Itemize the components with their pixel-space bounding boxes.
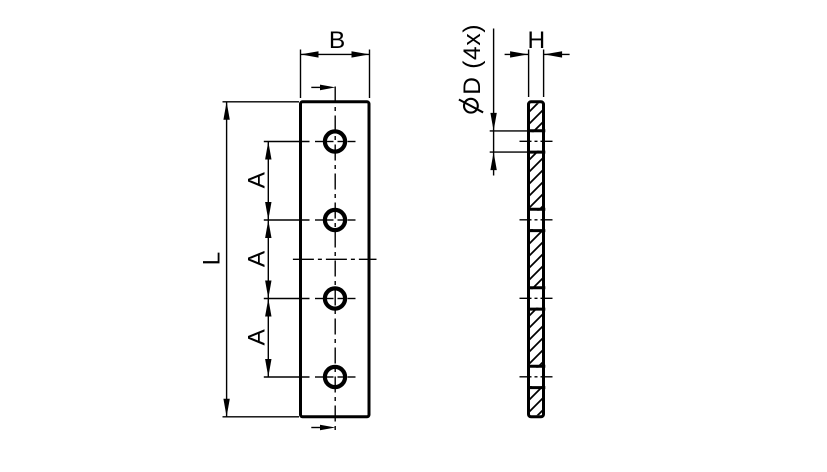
OD arrow upper (pointing down)	[490, 113, 496, 131]
hole cutouts in section	[530, 132, 543, 150]
B arrow left	[301, 51, 319, 57]
section arrow top	[311, 86, 322, 88]
hole 3 edges in section	[527, 286, 545, 289]
H arrow right (pointing left)	[544, 51, 562, 57]
svg-text:D (4x): D (4x)	[459, 24, 486, 95]
hatching	[529, 96, 545, 436]
A arrows at hole 3	[265, 281, 271, 299]
H arrow left (pointing right)	[510, 51, 528, 57]
A dimension line	[267, 142, 269, 378]
plate outline front view	[301, 102, 370, 417]
svg-text:H: H	[527, 27, 545, 54]
B dimension extension lines	[300, 50, 302, 99]
H dimension line right	[544, 53, 570, 55]
OD arrow lower (pointing up)	[490, 152, 496, 170]
hole 1 circle	[325, 131, 345, 151]
svg-text:A: A	[243, 250, 270, 267]
L arrow top	[223, 102, 229, 120]
L dimension extension lines	[223, 101, 300, 103]
bar outline side view	[529, 102, 544, 417]
B dimension line	[301, 53, 370, 55]
hole centerlines in section	[520, 140, 553, 142]
hole 3 circle	[325, 288, 345, 308]
L dimension line	[226, 102, 228, 417]
A arrows at hole 1	[265, 142, 271, 160]
svg-text:A: A	[243, 171, 270, 188]
A arrows at hole 2	[265, 202, 271, 220]
hole 4 centerline horizontal	[264, 376, 356, 378]
hole 4 edges in section	[527, 365, 545, 368]
hole 1 centerline horizontal	[264, 141, 356, 143]
section arrow bottom	[311, 427, 322, 429]
hole 1 edges in section	[527, 129, 545, 132]
hole 3 centerline horizontal	[264, 298, 356, 300]
OD dimension line	[493, 29, 495, 176]
diameter symbol of OD label	[464, 99, 478, 113]
svg-text:L: L	[199, 252, 226, 266]
hole 2 circle	[325, 210, 345, 230]
A arrows at hole 4	[265, 359, 271, 377]
B arrow right	[352, 51, 370, 57]
H dimension line left	[505, 53, 529, 55]
hole 4 circle	[325, 367, 345, 387]
L arrow bottom	[223, 399, 229, 417]
hole 2 centerline horizontal	[264, 219, 356, 221]
hole 2 edges in section	[527, 208, 545, 211]
svg-text:B: B	[329, 27, 345, 54]
H dimension extension lines	[528, 50, 530, 98]
OD dimension extension lines	[490, 130, 528, 132]
vertical section centerline	[334, 87, 336, 432]
svg-text:A: A	[243, 328, 270, 345]
horizontal mid centerline	[293, 258, 377, 260]
